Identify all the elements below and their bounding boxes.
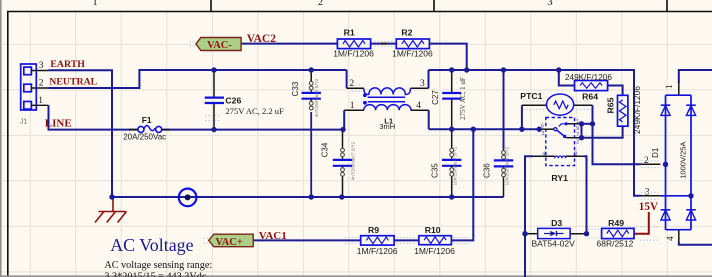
- wire R65 bottom to relay contact: [582, 126, 623, 138]
- wire VAC2 sense line: [241, 43, 337, 45]
- svg-text:2: 2: [349, 79, 354, 89]
- svg-text:AC voltage sensing range:: AC voltage sensing range:: [104, 260, 212, 271]
- diode D3 BAT54-02V: [525, 228, 587, 238]
- capacitor C36 (Y cap): [494, 149, 513, 197]
- svg-text:R1: R1: [344, 27, 355, 37]
- svg-text:4: 4: [416, 101, 421, 111]
- svg-text:8: 8: [574, 151, 577, 157]
- wire R64 branch from neutral-out: [559, 70, 575, 86]
- svg-text:R49: R49: [608, 218, 624, 228]
- junction bridge pin2: [663, 162, 668, 167]
- wire earth rail along bottom: [112, 196, 504, 198]
- compile mask marks (decorative): [190, 41, 659, 243]
- wire R9 to R10: [394, 239, 419, 241]
- svg-text:F1: F1: [142, 115, 152, 125]
- svg-text:C26: C26: [225, 96, 241, 106]
- svg-text:275V AC, 2.2 uF: 275V AC, 2.2 uF: [226, 106, 284, 116]
- resistor R49: [602, 228, 634, 238]
- junction C26 bottom: [211, 127, 216, 132]
- junction R64 drop: [556, 67, 561, 72]
- svg-text:275V AC, 1 uF: 275V AC, 1 uF: [459, 77, 467, 120]
- svg-text:R2: R2: [401, 27, 412, 37]
- svg-text:D1: D1: [651, 147, 660, 158]
- svg-text:249K/F/1206: 249K/F/1206: [632, 86, 642, 134]
- fuse F1 20A/250Vac: [129, 126, 170, 133]
- svg-text:2: 2: [318, 0, 323, 8]
- svg-text:J1: J1: [20, 118, 28, 125]
- svg-text:1M/F/1206: 1M/F/1206: [357, 246, 398, 256]
- relay RY1: [533, 118, 584, 166]
- wire relay coil pin4 to D3 and off-sheet: [525, 156, 533, 277]
- thermistor PTC1: [522, 94, 593, 115]
- svg-text:4n7/250Vac/7.5/Y2: 4n7/250Vac/7.5/Y2: [351, 141, 356, 180]
- svg-text:4: 4: [665, 236, 675, 241]
- wire PTC1 left drop to line-out rail: [521, 105, 523, 129]
- svg-text:3: 3: [542, 131, 545, 137]
- port VAC-: [196, 38, 241, 52]
- net tie tick R1-R2: [381, 43, 388, 45]
- svg-text:R64: R64: [582, 92, 598, 102]
- svg-text:C27: C27: [431, 90, 440, 105]
- svg-text:C35: C35: [430, 163, 439, 178]
- svg-text:68R/2512: 68R/2512: [597, 239, 634, 249]
- capacitor C26 (X cap): [205, 70, 224, 130]
- svg-text:VAC2: VAC2: [247, 33, 276, 45]
- svg-text:EARTH: EARTH: [50, 59, 85, 70]
- wire bridge pin1 to +DC off-sheet: [679, 70, 712, 83]
- svg-text:20A/250Vac: 20A/250Vac: [123, 133, 166, 142]
- common-mode choke L1 3mH: [344, 88, 429, 110]
- svg-text:1M/F/1206: 1M/F/1206: [414, 246, 455, 256]
- chassis tie circled junction: [179, 189, 197, 207]
- junction relay contact upper: [579, 121, 584, 126]
- svg-text:1000V/25A: 1000V/25A: [678, 142, 687, 179]
- junction C35 bottom: [449, 194, 454, 199]
- wire NEUTRAL net from J1 pin2: [49, 70, 347, 88]
- connector J1: [21, 64, 49, 110]
- capacitor C34 (Y cap): [333, 130, 352, 197]
- svg-text:AC Voltage: AC Voltage: [110, 235, 193, 255]
- wire LINE rail fuse to L1 pin1: [162, 129, 343, 131]
- svg-text:VAC-: VAC-: [207, 40, 232, 51]
- wire bridge pin4 to -DC off-sheet: [679, 242, 712, 245]
- svg-text:1M/F/1206: 1M/F/1206: [333, 49, 374, 59]
- wire relay contact to PTC column: [582, 123, 593, 125]
- resistor R1: [337, 39, 370, 49]
- wire line-out rail to relay: [429, 128, 540, 130]
- earth ground symbol: [95, 199, 127, 223]
- junction C27 bottom / C35: [449, 127, 454, 132]
- junction C26 top: [211, 67, 216, 72]
- svg-text:249K/F/1206: 249K/F/1206: [565, 73, 612, 82]
- junction C33 bottom: [309, 194, 314, 199]
- port VAC+: [209, 234, 254, 248]
- wire LINE net from J1 pin1 to fuse: [49, 105, 138, 129]
- window edge strips (decorative): [0, 0, 2, 277]
- resistor R10: [419, 236, 452, 245]
- wire R10 riser to line-out rail: [451, 129, 473, 240]
- svg-text:4: 4: [542, 151, 545, 157]
- capacitor C27 (X cap): [442, 70, 461, 129]
- junction C34 bottom: [339, 194, 344, 199]
- svg-text:1: 1: [92, 0, 97, 8]
- junction C27 top: [449, 67, 454, 72]
- resistor R9: [361, 236, 394, 245]
- wire R1 to R2: [371, 43, 397, 45]
- wire L1 pin3 riser to neutral-out rail: [428, 70, 430, 88]
- wire 15V net to R49: [634, 212, 649, 234]
- svg-text:1M/F/1206: 1M/F/1206: [392, 49, 433, 59]
- junction relay contact lower: [579, 135, 584, 140]
- junction C33 top: [309, 67, 314, 72]
- svg-text:3: 3: [39, 61, 44, 71]
- wire L1 pin1 riser: [343, 110, 345, 129]
- junction C36 drop: [501, 67, 506, 72]
- capacitor C35 (Y cap): [442, 129, 461, 197]
- svg-text:7: 7: [576, 132, 579, 138]
- svg-text:BAT54-02V: BAT54-02V: [532, 239, 576, 249]
- wire L1 pin4 drop: [428, 110, 430, 129]
- wire R64 to R65: [608, 86, 623, 96]
- svg-text:3mH: 3mH: [379, 122, 395, 131]
- wire relay coil pin8 drop to D3/R49 node: [584, 156, 587, 233]
- junction relay pin6: [537, 127, 542, 132]
- svg-text:3: 3: [547, 0, 552, 8]
- svg-text:R65: R65: [606, 97, 616, 113]
- svg-text:4n7/250Vac/7.5/Y2: 4n7/250Vac/7.5/Y2: [314, 78, 319, 117]
- svg-text:2: 2: [39, 78, 44, 88]
- resistor R2: [396, 39, 429, 49]
- resistor R65: [618, 95, 628, 126]
- junction D3 left node: [522, 231, 527, 236]
- junction R2 drop: [464, 67, 469, 72]
- svg-text:PTC1: PTC1: [520, 91, 542, 101]
- svg-text:RY1: RY1: [551, 173, 568, 183]
- capacitor C33 (Y cap): [302, 70, 321, 197]
- junction D3/R49 node: [584, 231, 589, 236]
- svg-text:D3: D3: [551, 218, 562, 228]
- svg-text:10n/250Vac/7.5/Y2: 10n/250Vac/7.5/Y2: [504, 146, 509, 185]
- junction PTC1 left: [519, 127, 524, 132]
- junction L1 pin1 / C34: [340, 127, 345, 132]
- bridge rectifier D1 1000V/25A: [641, 83, 696, 242]
- svg-text:C34: C34: [321, 142, 330, 157]
- svg-text:1: 1: [38, 96, 43, 106]
- svg-text:2: 2: [576, 140, 579, 146]
- svg-text:C36: C36: [483, 163, 492, 178]
- svg-text:15V: 15V: [639, 201, 658, 213]
- wire neutral-out rail to bridge column: [429, 70, 642, 196]
- wire EARTH net from J1 pin3: [49, 70, 113, 197]
- svg-text:NEUTRAL: NEUTRAL: [49, 77, 97, 88]
- svg-text:VAC1: VAC1: [259, 230, 287, 242]
- svg-text:C33: C33: [291, 81, 300, 96]
- wire relay contact pair link: [581, 124, 583, 138]
- wire NEUTRAL drop to L1 pin2: [346, 70, 348, 88]
- svg-text:1: 1: [350, 101, 355, 111]
- svg-text:3: 3: [420, 79, 425, 89]
- junction bridge pin3: [688, 193, 693, 198]
- svg-text:R10: R10: [425, 225, 441, 235]
- resistor R64: [575, 81, 608, 91]
- wire C36 branch from neutral-out: [503, 70, 505, 149]
- svg-text:1: 1: [664, 85, 674, 90]
- svg-text:VAC+: VAC+: [216, 237, 243, 248]
- svg-text:LINE: LINE: [45, 118, 72, 130]
- svg-text:3.3*2015/15 = 443.3Vdc: 3.3*2015/15 = 443.3Vdc: [104, 272, 206, 277]
- svg-text:R9: R9: [368, 225, 379, 235]
- junction R10 riser: [471, 127, 476, 132]
- wire PTC1 right column to bridge pin2: [593, 105, 642, 164]
- svg-text:10n/250Vac/7.5/Y2: 10n/250Vac/7.5/Y2: [452, 146, 457, 185]
- wire R2 to neutral-out rail: [429, 44, 466, 70]
- wire VAC1 sense line: [253, 239, 361, 241]
- junction earth riser: [109, 194, 114, 199]
- junction PTC1 right column: [590, 121, 595, 126]
